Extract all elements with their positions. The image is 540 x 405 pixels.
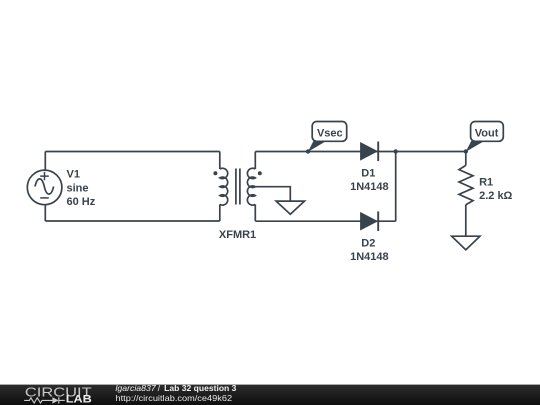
svg-text:LAB: LAB — [66, 394, 92, 405]
transformer XFMR1 primary phase dot — [213, 171, 217, 175]
node Vout dot — [464, 149, 468, 153]
wire primary top stub — [219, 152, 221, 170]
node junction dot after D1 — [394, 149, 398, 153]
wire secondary bottom stub — [254, 204, 256, 221]
svg-text:Vout: Vout — [475, 127, 499, 139]
wire R1 bottom — [465, 205, 467, 237]
wire center tap — [255, 187, 290, 201]
logo schematic symbol — [24, 397, 65, 403]
transformer XFMR1 core — [236, 169, 240, 205]
svg-text:1N4148: 1N4148 — [350, 251, 389, 263]
svg-text:Lab 32 question 3: Lab 32 question 3 — [164, 383, 237, 393]
svg-text:D2: D2 — [361, 237, 375, 249]
wire secondary top stub — [254, 152, 256, 170]
wire left vertical bottom — [44, 205, 46, 221]
transformer XFMR1 secondary phase dot — [258, 171, 262, 175]
transformer XFMR1 primary coil — [220, 168, 228, 205]
svg-text:1N4148: 1N4148 — [350, 181, 389, 193]
wire R1 top — [465, 152, 467, 166]
svg-text:60 Hz: 60 Hz — [67, 196, 96, 208]
svg-text:2.2 kΩ: 2.2 kΩ — [479, 190, 512, 202]
ground R1 — [452, 236, 480, 250]
wire junction vertical — [395, 152, 397, 222]
svg-text:Vsec: Vsec — [317, 127, 343, 139]
resistor R1 zigzag — [459, 165, 473, 204]
diode D1 — [361, 142, 379, 162]
wire bottom rail primary loop — [45, 220, 220, 222]
svg-text:lgarcia837: lgarcia837 — [116, 383, 157, 393]
wire top rail secondary to Vout — [255, 151, 465, 153]
svg-text:XFMR1: XFMR1 — [219, 229, 256, 241]
diode D2 — [361, 211, 379, 231]
node Vsec flag — [308, 122, 347, 152]
ground secondary center tap — [276, 201, 304, 214]
svg-text:R1: R1 — [479, 176, 493, 188]
svg-text:V1: V1 — [67, 169, 80, 181]
transformer XFMR1 secondary coil — [247, 168, 255, 205]
wire left vertical top — [44, 152, 46, 171]
svg-text:sine: sine — [67, 182, 89, 194]
wire top rail primary loop — [45, 151, 220, 153]
node Vsec dot — [306, 149, 310, 153]
wire primary bottom stub — [219, 204, 221, 221]
node Vout flag — [466, 122, 504, 152]
svg-text:http://circuitlab.com/ce49k62: http://circuitlab.com/ce49k62 — [116, 393, 233, 403]
voltage source V1 — [27, 170, 62, 205]
svg-text:D1: D1 — [361, 167, 375, 179]
wire bottom rail secondary to D2 — [255, 220, 395, 222]
